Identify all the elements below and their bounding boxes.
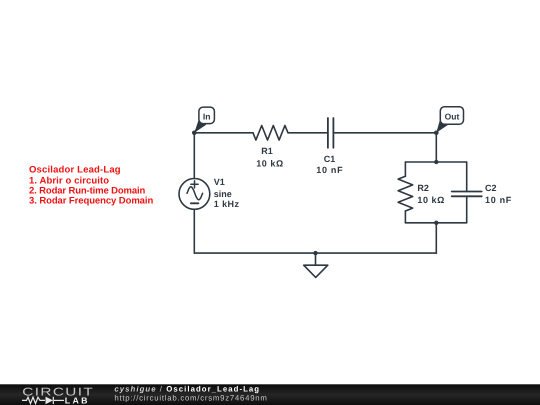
svg-text:10 nF: 10 nF	[316, 165, 343, 175]
svg-text:10 kΩ: 10 kΩ	[417, 195, 444, 205]
svg-text:3. Rodar Frequency Domain: 3. Rodar Frequency Domain	[29, 196, 153, 207]
svg-text:LAB: LAB	[65, 396, 90, 405]
svg-text:cyshigue / Oscilador_Lead-Lag: cyshigue / Oscilador_Lead-Lag	[114, 385, 260, 394]
svg-text:R1: R1	[261, 146, 273, 156]
svg-text:http://circuitlab.com/crsm9z74: http://circuitlab.com/crsm9z74649nm	[114, 394, 267, 403]
svg-text:Out: Out	[445, 112, 460, 122]
svg-text:C1: C1	[324, 154, 336, 164]
svg-text:10 nF: 10 nF	[485, 195, 512, 205]
svg-text:1 kHz: 1 kHz	[214, 199, 240, 209]
svg-text:Oscilador Lead-Lag: Oscilador Lead-Lag	[29, 165, 121, 176]
svg-text:10 kΩ: 10 kΩ	[256, 158, 283, 168]
svg-text:sine: sine	[214, 189, 232, 199]
svg-text:V1: V1	[214, 177, 225, 187]
svg-text:In: In	[203, 111, 211, 121]
svg-text:R2: R2	[417, 183, 429, 193]
svg-text:C2: C2	[485, 183, 497, 193]
